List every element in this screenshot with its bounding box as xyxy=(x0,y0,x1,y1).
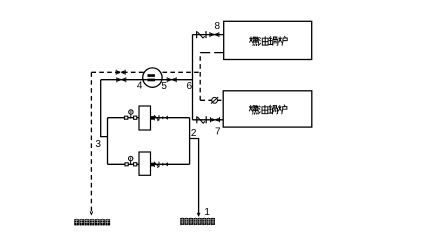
svg-text:1: 1 xyxy=(204,207,210,218)
svg-text:4: 4 xyxy=(137,81,143,92)
svg-text:8: 8 xyxy=(215,21,221,32)
svg-text:5: 5 xyxy=(161,81,167,92)
svg-text:6: 6 xyxy=(187,81,193,92)
svg-text:3: 3 xyxy=(95,139,101,150)
svg-text:7: 7 xyxy=(215,127,221,138)
svg-text:2: 2 xyxy=(191,128,197,139)
